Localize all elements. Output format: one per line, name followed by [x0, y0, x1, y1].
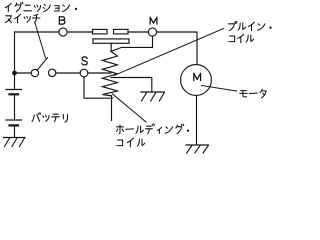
wire: between battery cells — [14, 95, 16, 119]
coil zigzag (pull-in + holding) — [102, 52, 117, 96]
ground: motor ground bar — [186, 144, 209, 146]
label: イグニッション・ — [5, 2, 271, 146]
leader: ignition switch label — [35, 23, 46, 58]
motor circle — [181, 65, 212, 96]
battery cell 1 short plate — [10, 93, 19, 95]
ground: battery hatches — [5, 138, 10, 147]
wire: junction to ignition switch — [15, 72, 32, 74]
ignition switch contact circles — [31, 69, 38, 76]
battery cell 2 short plate — [10, 124, 19, 126]
contact 1 (fixed contact) — [93, 29, 108, 34]
wire: terminal M to right corner, down to motor — [157, 32, 197, 65]
terminal S circle — [80, 69, 88, 77]
label: ホールディング・ — [117, 125, 124, 133]
leader: pull-in coil label — [114, 29, 224, 76]
label: バッテリ — [32, 113, 41, 122]
node: junction dot at battery/switch — [12, 71, 17, 76]
wire: battery to ground — [14, 127, 16, 138]
wire: top bus from left corner to terminal B — [15, 31, 59, 33]
ground: middle ground bar — [141, 91, 164, 93]
wire: coil to middle ground — [111, 78, 152, 92]
wire: terminal S to coil — [88, 72, 111, 74]
ground: battery ground bar — [4, 137, 26, 139]
label: terminal S — [82, 57, 87, 65]
moving contact plate — [93, 39, 129, 43]
wire: switch to terminal S — [56, 72, 80, 74]
wire: S down and right to coil bottom — [84, 77, 113, 98]
wire: contact 2 to terminal M — [128, 31, 148, 33]
label: スイッチ — [6, 16, 12, 23]
contact 2 (fixed contact) — [114, 29, 129, 34]
leader: holding coil label — [112, 94, 146, 122]
wire: terminal M down-left to coil top — [111, 36, 153, 51]
label: モータ — [240, 91, 248, 97]
ground: middle hatches — [142, 93, 147, 102]
label: コイル (holding) — [117, 140, 123, 146]
battery cell 2 long plate — [6, 119, 22, 121]
label: terminal M — [150, 17, 157, 24]
wire: terminal B to contact 1 — [67, 31, 92, 33]
battery cell 1 long plate — [6, 89, 22, 91]
ground: motor hatches — [187, 146, 192, 154]
label: プルイン・ — [229, 22, 237, 31]
leader: motor label — [202, 86, 237, 92]
label: motor M — [194, 73, 201, 80]
wire: coil bottom plunger rod — [111, 96, 113, 121]
terminal M circle — [148, 28, 156, 36]
label: terminal B — [59, 17, 65, 24]
wire: motor to ground — [196, 95, 198, 144]
wire: left vertical from top bus to battery junction — [14, 32, 16, 89]
wire: plate stub to coil top — [110, 43, 112, 51]
terminal B circle — [59, 28, 67, 36]
label: コイル (pull-in) — [229, 36, 235, 42]
ignition switch blade — [37, 58, 47, 71]
